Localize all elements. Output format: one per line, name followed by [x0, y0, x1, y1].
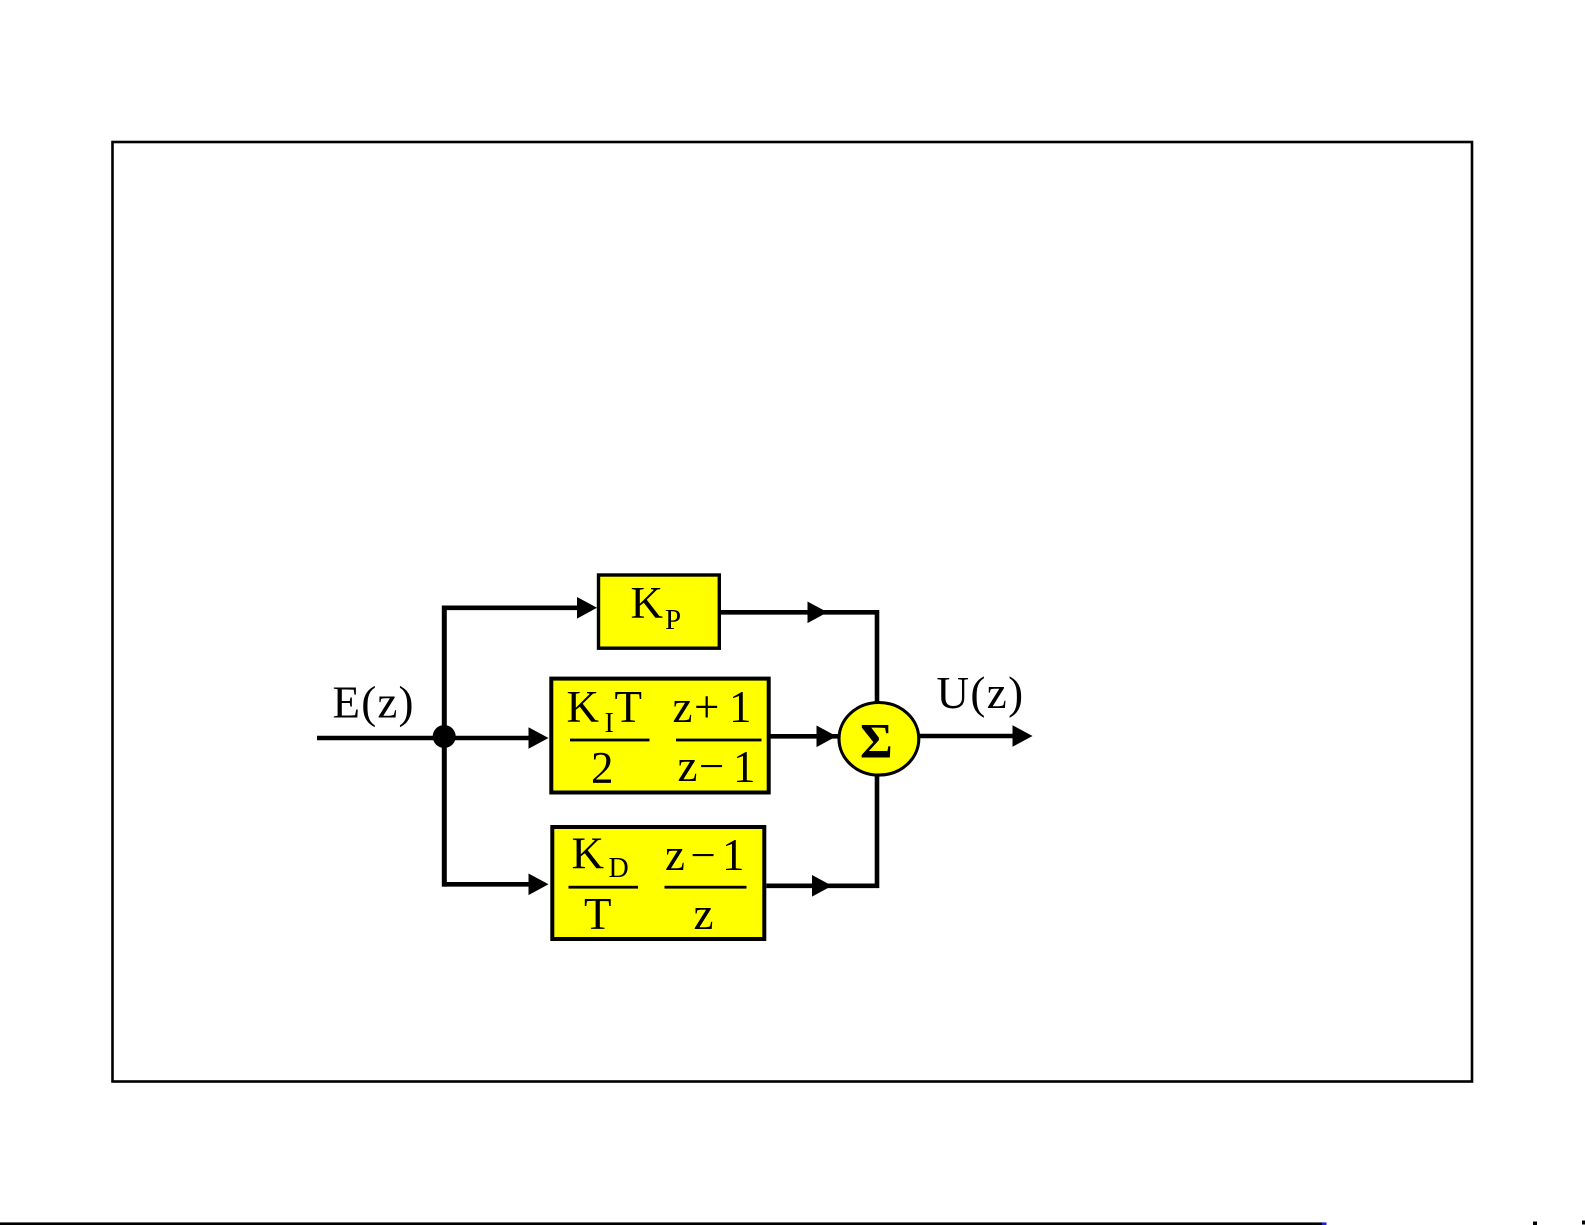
svg-text:1: 1 [722, 830, 745, 880]
arrowhead into derivative block [529, 874, 549, 896]
wire KP output [721, 610, 879, 615]
bottom edge line blue tip [1322, 1222, 1327, 1225]
svg-text:D: D [609, 853, 629, 884]
block KP [599, 575, 720, 648]
fraction bar z-1/z [665, 886, 747, 889]
fraction bar KIT/2 [570, 739, 650, 742]
node junction dot [433, 725, 456, 748]
svg-text:z: z [694, 889, 714, 939]
svg-text:z: z [673, 682, 693, 732]
summer circle [839, 703, 919, 776]
svg-text:Σ: Σ [860, 712, 893, 768]
bottom speck 2 [1582, 1221, 1585, 1225]
svg-text:U(z): U(z) [937, 668, 1025, 718]
svg-text:+: + [694, 682, 719, 732]
svg-text:1: 1 [729, 682, 752, 732]
svg-text:z: z [678, 741, 698, 791]
svg-text:−: − [699, 741, 724, 791]
svg-text:I: I [605, 708, 614, 739]
svg-text:−: − [691, 830, 716, 880]
wire corner down to summer top [875, 610, 880, 703]
arrowhead output U(z) [1013, 725, 1033, 747]
svg-text:P: P [665, 604, 681, 636]
wire branch vertical [442, 606, 447, 887]
fraction bar KD/T [569, 886, 639, 889]
arrowhead on KP output [808, 602, 828, 624]
slide frame [113, 142, 1473, 1082]
bottom speck 1 [1533, 1222, 1537, 1225]
wire summer output [919, 734, 1014, 739]
wire middle branch [444, 736, 532, 741]
arrowhead into summer [817, 726, 837, 748]
wire derivative output [766, 883, 879, 888]
svg-text:T: T [615, 682, 643, 732]
bottom edge line [0, 1222, 1322, 1225]
wire corner up to summer bottom [875, 775, 880, 889]
wire top branch to KP [442, 605, 580, 610]
wire input E(z) horizontal [317, 736, 446, 741]
block integrator KI [551, 679, 768, 793]
fraction bar z+1/z-1 [676, 739, 762, 742]
arrowhead into KP [577, 597, 597, 619]
svg-text:1: 1 [733, 742, 756, 792]
arrowhead on derivative output [812, 875, 832, 897]
block derivative KD [552, 827, 764, 939]
svg-text:K: K [572, 829, 605, 879]
wire integrator output [770, 734, 841, 739]
svg-text:K: K [631, 578, 664, 628]
svg-text:K: K [567, 682, 600, 732]
svg-text:T: T [584, 889, 612, 939]
svg-text:E(z): E(z) [333, 677, 415, 727]
svg-text:z: z [665, 830, 685, 880]
wire bottom branch [444, 882, 532, 887]
arrowhead into integrator block [529, 727, 549, 749]
svg-text:2: 2 [591, 743, 614, 793]
